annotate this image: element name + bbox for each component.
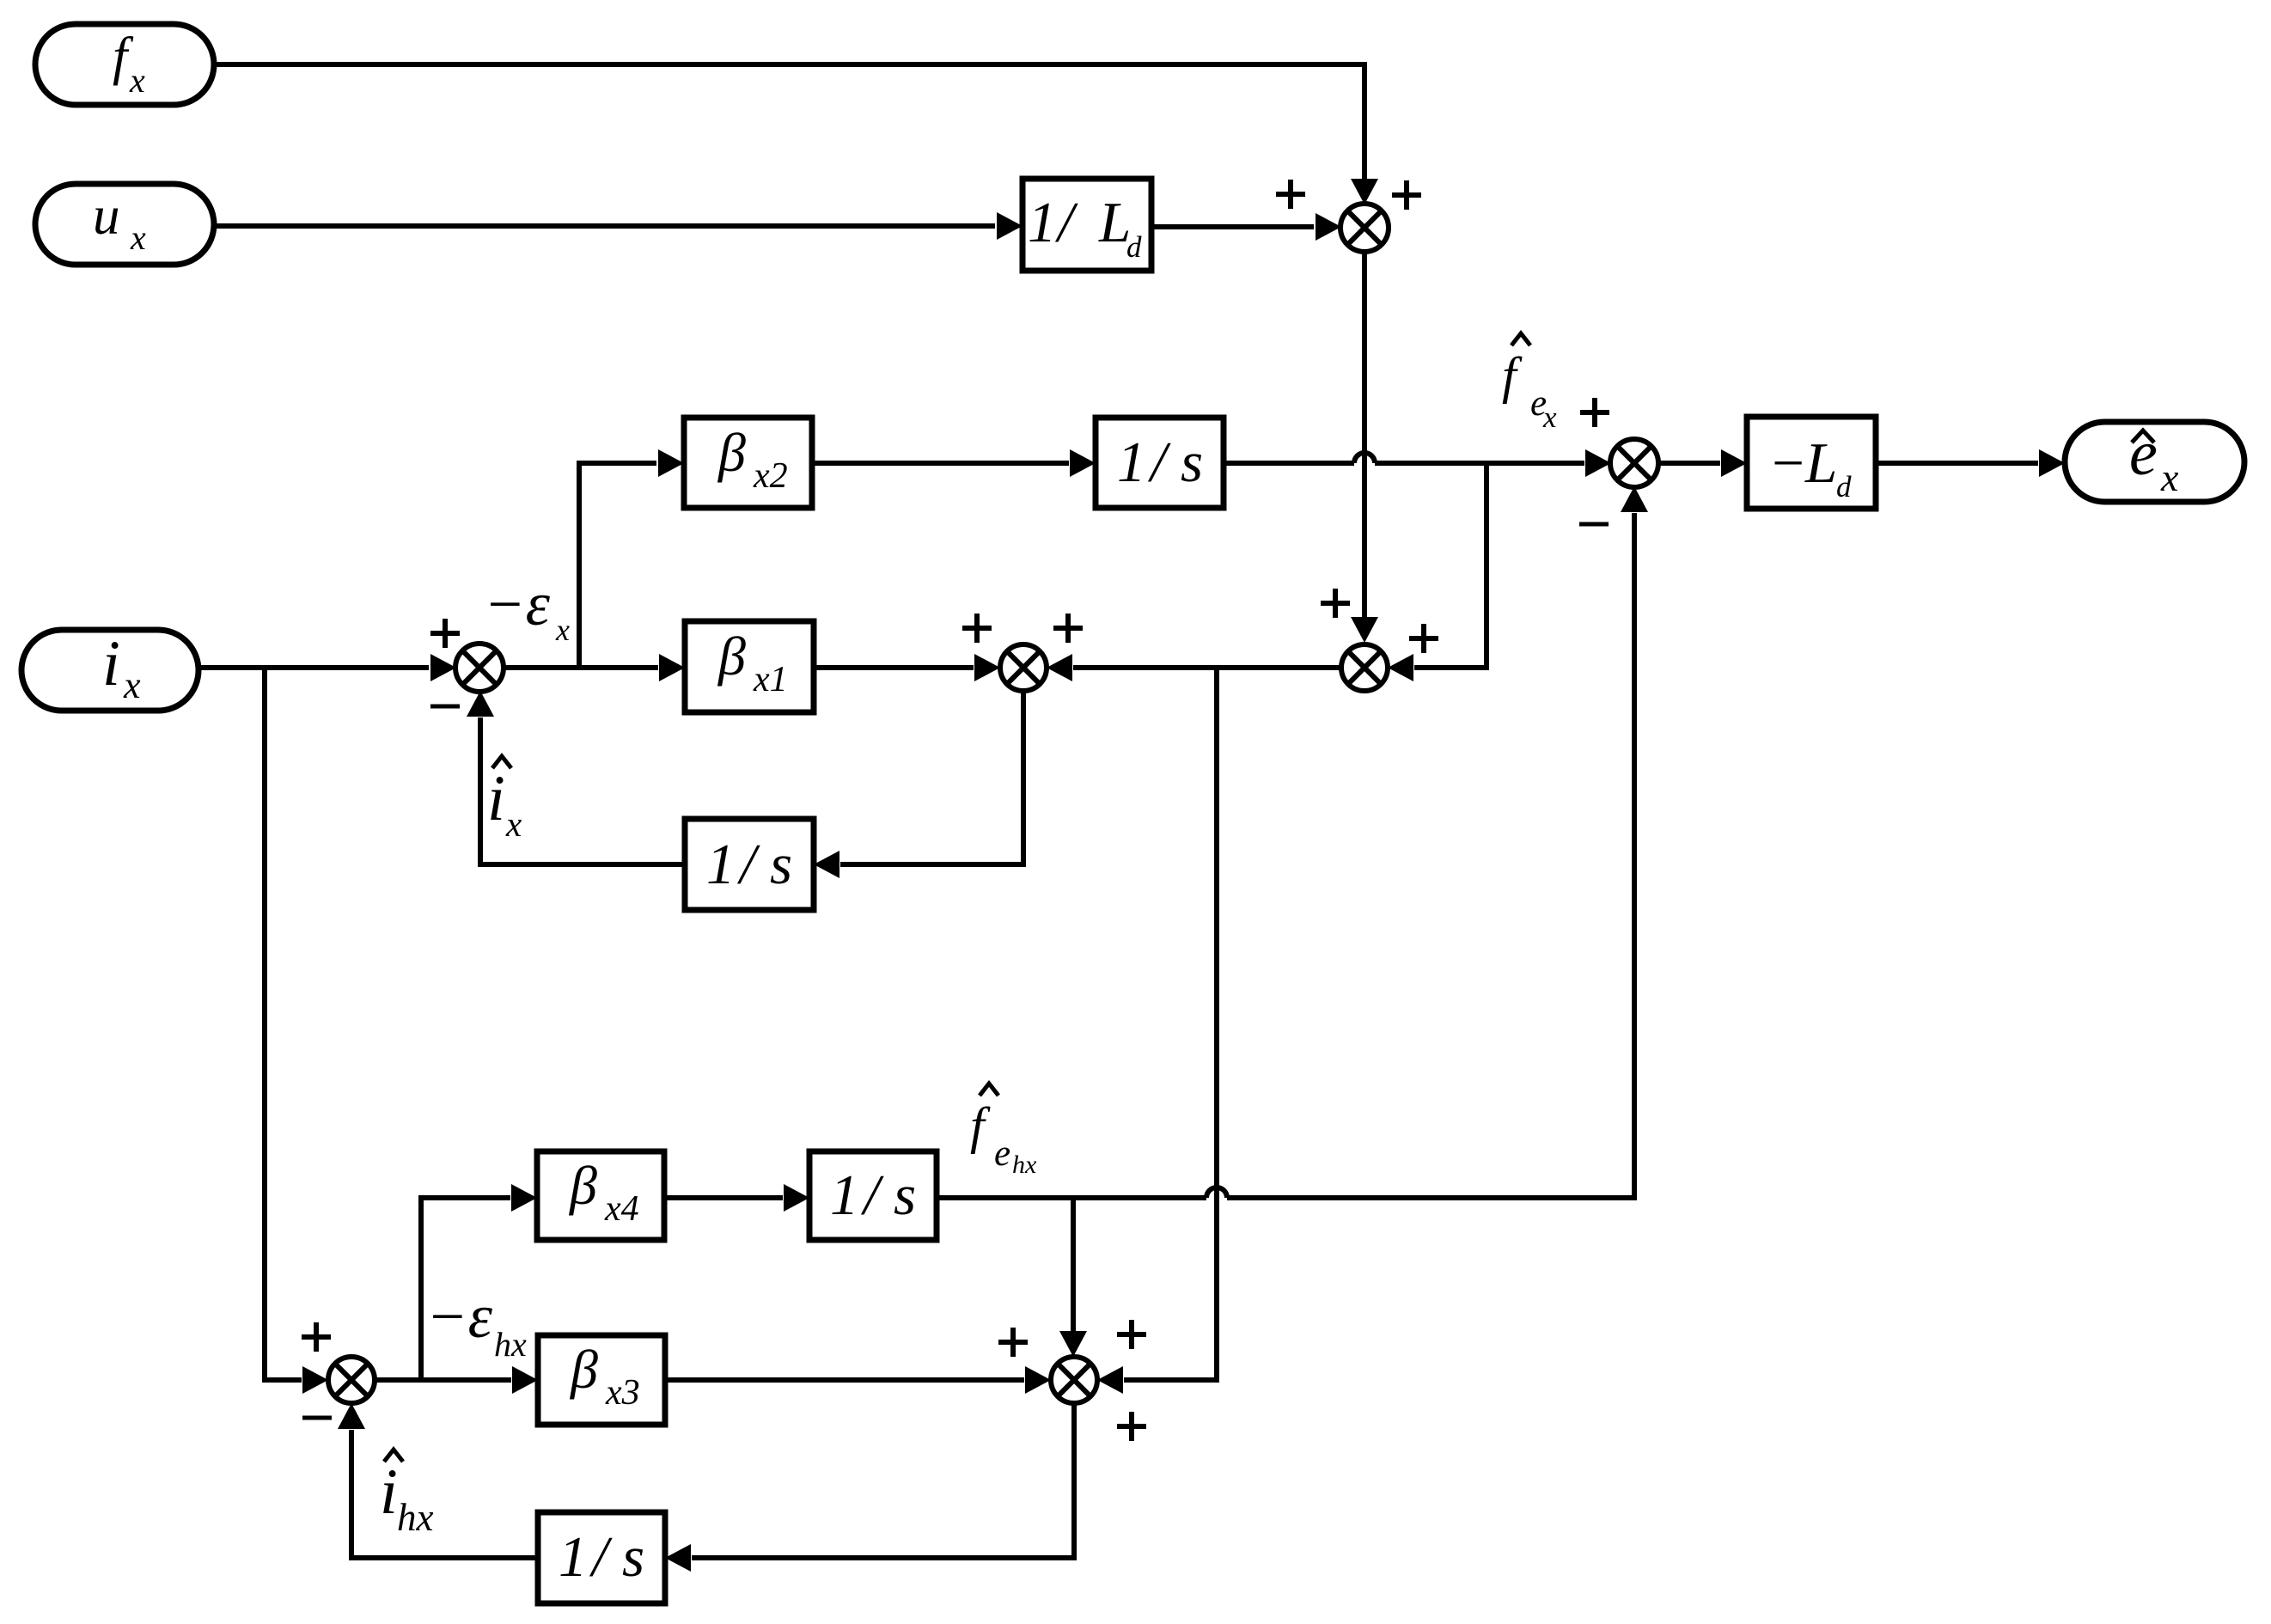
plus sign at S2 top input	[1321, 589, 1350, 618]
svg-text:1: 1	[1028, 191, 1057, 254]
wire: mid 1/s output (ix_hat) left and up into bottom of sum SA	[467, 691, 685, 864]
block beta_x1	[685, 621, 814, 712]
svg-text:x: x	[1542, 400, 1557, 434]
svg-text:x: x	[555, 613, 570, 647]
wire: -Ld output into ex_hat pill	[1876, 449, 2065, 477]
input pill ix	[21, 628, 198, 711]
svg-text:s: s	[894, 1163, 916, 1227]
node label -eps_hx	[426, 1282, 527, 1364]
plus sign at S3 left input	[962, 614, 992, 643]
svg-text:x: x	[129, 61, 145, 100]
input pill fx	[35, 24, 214, 105]
svg-text:x: x	[505, 804, 522, 844]
summing junction S3 (beta_x1 + S2)	[1000, 644, 1047, 691]
summing junction S4 (fe_x - fe_hx)	[1610, 439, 1658, 487]
svg-text:1: 1	[830, 1163, 859, 1227]
plus sign at S4 left input	[1580, 398, 1609, 427]
plus sign at S6 top input	[1117, 1320, 1146, 1349]
svg-text:d: d	[1836, 470, 1852, 504]
svg-text:s: s	[770, 833, 792, 896]
node label fe_hx_hat	[970, 1084, 1037, 1179]
svg-text:d: d	[1126, 230, 1142, 264]
svg-text:β: β	[717, 626, 746, 687]
svg-text:e: e	[2129, 418, 2158, 489]
wire: fx output right and down into top of sum S1	[214, 64, 1378, 205]
summing junction S1 (fx + ux/Ld)	[1340, 204, 1389, 252]
svg-text:x3: x3	[605, 1373, 640, 1413]
wire: sum S2 output left into right of sum S3	[1047, 654, 1341, 681]
block beta_x4	[537, 1151, 664, 1240]
svg-text:i: i	[102, 628, 120, 699]
svg-text:β: β	[568, 1155, 597, 1216]
summing junction S6 (fe_hx + beta_x3 + tap)	[1051, 1357, 1097, 1403]
plus sign at S5 left input	[302, 1322, 331, 1352]
svg-text:x: x	[123, 664, 141, 706]
svg-text:1: 1	[559, 1525, 588, 1589]
svg-text:1: 1	[1117, 430, 1146, 494]
plus sign at S6 right input	[1117, 1412, 1146, 1441]
plus sign at S1 left input	[1276, 180, 1305, 209]
wire: sum S6 output down and left into bottom integrator 1/s	[665, 1403, 1074, 1572]
minus sign at SA bottom input	[430, 705, 460, 709]
wire: branch from ix line down into left of sum S5	[265, 668, 328, 1394]
wire: sum SA output (-eps_x node) to beta_x1 block	[503, 654, 685, 681]
svg-text:1: 1	[706, 833, 736, 896]
node label -eps_x	[484, 570, 570, 647]
plus sign at S3 right input	[1053, 614, 1083, 643]
wire: S3 output down and left into mid integrator 1/s	[814, 691, 1023, 878]
wire: S1 output down into top of sum S2	[1351, 251, 1378, 643]
svg-text:e: e	[994, 1133, 1010, 1174]
wire: ix output into left of sum SA	[198, 654, 456, 681]
wire: sum S4 output into -Ld block	[1657, 449, 1747, 477]
summing junction SA (ix - ix_hat)	[455, 644, 504, 692]
wire: beta_x4 output into lower integrator 1/s	[664, 1184, 809, 1212]
block 1/s (bottom integrator)	[538, 1512, 665, 1603]
svg-text:s: s	[622, 1525, 644, 1589]
svg-text:x: x	[130, 218, 146, 257]
svg-text:x2: x2	[753, 456, 788, 496]
wire: beta_x2 output into top integrator 1/s	[812, 449, 1096, 477]
wire: bottom 1/s output (ihx_hat) left and up into bottom of sum S5	[338, 1403, 538, 1558]
block beta_x2	[684, 418, 812, 508]
wire: fe_hx line from lower 1/s right with hop, up into bottom of sum S4	[937, 486, 1648, 1198]
plus sign at S2 right input	[1409, 624, 1438, 653]
wire: 1/Ld output into left of sum S1	[1151, 213, 1341, 241]
summing junction S5 (ix - ihx_hat)	[328, 1357, 375, 1403]
wire: branch down from fe_hx line into top of sum S6	[1059, 1198, 1087, 1357]
output pill ex_hat	[2065, 418, 2244, 502]
svg-text:x4: x4	[604, 1189, 639, 1229]
block beta_x3	[538, 1335, 665, 1425]
plus sign at S1 top input	[1392, 180, 1421, 210]
svg-text:L: L	[1804, 431, 1837, 495]
block 1/s (mid integrator)	[685, 819, 814, 910]
svg-text:s: s	[1181, 430, 1203, 494]
plus sign at S6 left input	[998, 1328, 1028, 1357]
svg-text:β: β	[717, 422, 746, 483]
wire: beta_x1 output into left of sum S3	[814, 654, 1000, 681]
svg-text:u: u	[93, 186, 120, 246]
wire: ux output into 1/Ld block	[214, 212, 1023, 240]
wire: branch down from S2-S3 line into right of sum S6	[1097, 668, 1217, 1394]
minus sign at S4 bottom input	[1579, 522, 1609, 527]
svg-text:i: i	[487, 763, 505, 834]
svg-text:x1: x1	[753, 660, 788, 699]
summing junction S2 (S1 + fe_x tap)	[1341, 644, 1388, 691]
node label ix_hat	[487, 756, 522, 844]
svg-text:β: β	[569, 1339, 598, 1400]
svg-text:i: i	[380, 1456, 398, 1528]
input pill ux	[35, 184, 214, 265]
block 1/s (top integrator)	[1096, 418, 1224, 508]
svg-text:−ε: −ε	[484, 570, 551, 638]
wire: sum S5 output (-eps_hx node) into beta_x3 block	[375, 1366, 538, 1394]
svg-text:−ε: −ε	[426, 1282, 493, 1351]
plus sign at SA left input	[430, 619, 460, 648]
wire: branch up from -eps_hx node into beta_x4	[421, 1184, 537, 1380]
block -Ld	[1747, 417, 1876, 509]
block 1/Ld	[1023, 179, 1151, 271]
wire: fe_x line from 1/s output to sum S4, hop over S1-S2 line	[1224, 449, 1611, 477]
minus sign at S5 bottom input	[302, 1416, 332, 1420]
wire: beta_x3 output into left of sum S6	[665, 1366, 1051, 1394]
svg-text:x: x	[2160, 455, 2179, 499]
block 1/s (lower integrator)	[809, 1151, 937, 1240]
svg-text:hx: hx	[1012, 1151, 1037, 1179]
svg-text:hx: hx	[494, 1325, 527, 1364]
node label ihx_hat	[380, 1450, 434, 1539]
svg-text:−: −	[1768, 431, 1807, 495]
wire: branch up from -eps_x node into beta_x2	[579, 449, 684, 668]
node label fe_x_hat	[1502, 333, 1557, 434]
wire: branch down from fe_x line into right of sum S2	[1388, 463, 1487, 681]
svg-text:hx: hx	[397, 1496, 434, 1539]
